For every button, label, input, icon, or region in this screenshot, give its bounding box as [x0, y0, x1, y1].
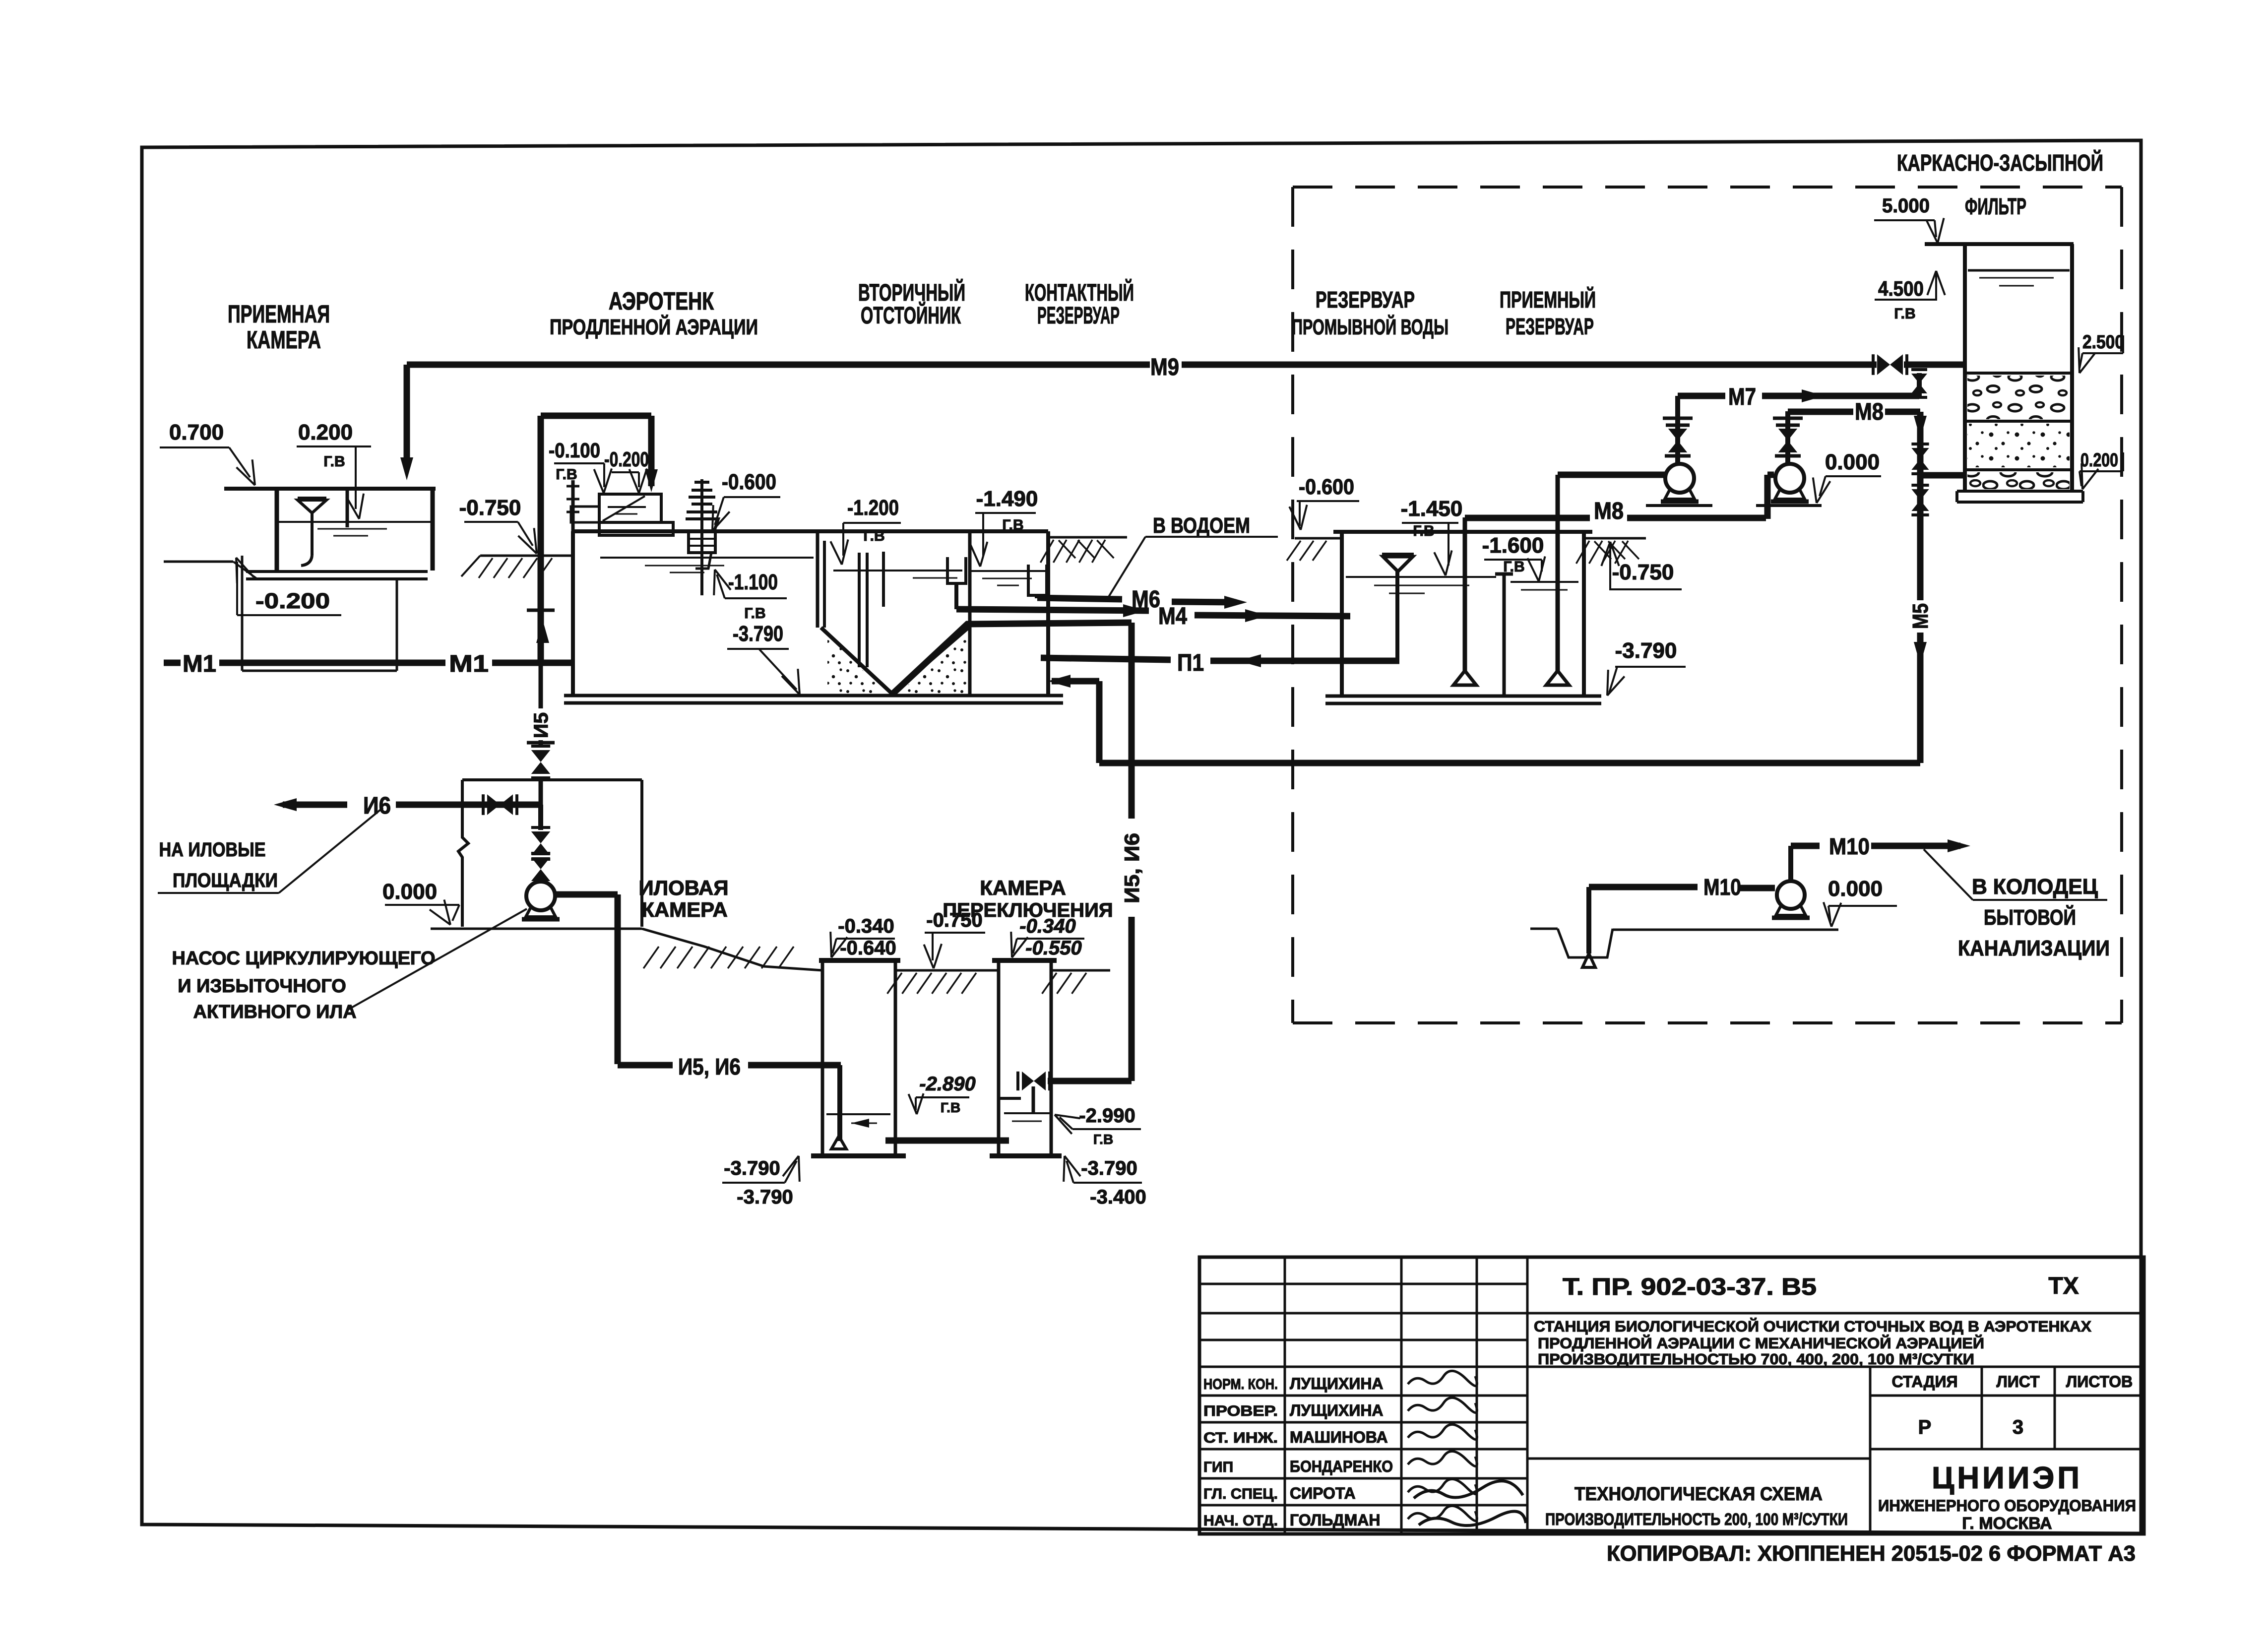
water line in settler [833, 570, 962, 572]
svg-text:ИЛОВАЯ: ИЛОВАЯ [638, 876, 728, 899]
svg-text:СТАНЦИЯ БИОЛОГИЧЕСКОЙ ОЧИСТК: СТАНЦИЯ БИОЛОГИЧЕСКОЙ ОЧИСТКИ СТОЧНЫХ ВО… [1534, 1317, 2091, 1335]
М9 drop into receiving chamber with arrow [404, 365, 410, 464]
svg-text:И ИЗБЫТОЧНОГО: И ИЗБЫТОЧНОГО [178, 976, 346, 997]
svg-text:НА ИЛОВЫЕ: НА ИЛОВЫЕ [159, 839, 266, 861]
ground + hatch right of receiving reservoir [1584, 537, 1646, 540]
svg-text:ГЛ. СПЕЦ.: ГЛ. СПЕЦ. [1203, 1486, 1278, 1502]
overflow funnel in washing reservoir [1383, 557, 1413, 572]
svg-text:ПРИЕМНАЯ: ПРИЕМНАЯ [228, 300, 330, 328]
svg-text:М10: М10 [1829, 833, 1870, 859]
svg-text:П1: П1 [1177, 650, 1204, 676]
svg-text:КАНАЛИЗАЦИИ: КАНАЛИЗАЦИИ [1958, 936, 2110, 960]
ground + hatch left of washing reservoir [1295, 537, 1342, 540]
pit walls under chamber [241, 556, 244, 671]
svg-text:ЛИСТ: ЛИСТ [1996, 1373, 2040, 1391]
svg-text:НОРМ. КОН.: НОРМ. КОН. [1203, 1376, 1278, 1393]
water line in sludge chamber [826, 1113, 890, 1115]
svg-text:Г.В: Г.В [323, 453, 345, 470]
svg-text:-3.790: -3.790 [1615, 638, 1677, 663]
svg-text:М6: М6 [1132, 586, 1160, 613]
ground lines & hatch at chambers [895, 969, 999, 972]
svg-text:-1.600: -1.600 [1482, 533, 1544, 558]
svg-text:КАМЕРА: КАМЕРА [247, 326, 321, 354]
sludge chamber walls [821, 962, 824, 1154]
svg-text:НАЧ. ОТД.: НАЧ. ОТД. [1203, 1513, 1278, 1529]
svg-text:РЕЗЕРВУАР: РЕЗЕРВУАР [1037, 303, 1120, 329]
svg-text:Г. МОСКВА: Г. МОСКВА [1962, 1514, 2052, 1533]
svg-text:2.500: 2.500 [2082, 332, 2124, 353]
svg-text:Г.В: Г.В [1894, 306, 1915, 322]
suction funnel 2 (receiving reservoir) [1546, 671, 1569, 685]
svg-text:ПЛОЩАДКИ: ПЛОЩАДКИ [173, 870, 278, 891]
title block vertical dividers (left table) [1284, 1257, 1286, 1534]
svg-text:0.200: 0.200 [2080, 450, 2118, 471]
svg-text:ФИЛЬТР: ФИЛЬТР [1965, 193, 2026, 219]
filter gravel layer 1 [1965, 372, 2072, 375]
svg-text:В КОЛОДЕЦ: В КОЛОДЕЦ [1972, 875, 2098, 899]
ground line at sludge pump [431, 928, 642, 930]
pipe М1 stub at left [164, 660, 181, 666]
svg-text:ПРИЕМНЫЙ: ПРИЕМНЫЙ [1500, 287, 1596, 313]
svg-text:М4: М4 [1158, 603, 1187, 630]
svg-text:И5, И6: И5, И6 [678, 1054, 741, 1080]
svg-text:М1: М1 [183, 651, 216, 677]
filter walls [1963, 244, 1967, 491]
svg-text:-0.340: -0.340 [838, 915, 894, 937]
svg-text:-0.750: -0.750 [459, 496, 521, 520]
svg-text:Г.В: Г.В [1093, 1132, 1113, 1147]
svg-text:ПРОДЛЕННОЙ АЭРАЦИИ: ПРОДЛЕННОЙ АЭРАЦИИ [550, 314, 758, 339]
svg-text:-0.750: -0.750 [926, 909, 982, 931]
svg-text:Г.В: Г.В [1002, 517, 1023, 533]
inlet funnel in receiving chamber [298, 500, 326, 513]
title block right-side lines [1527, 1312, 2144, 1315]
pipe И6 segment with valve [396, 802, 540, 808]
svg-text:-0.340: -0.340 [1019, 915, 1075, 937]
svg-text:ПРОИЗВОДИТЕЛЬНОСТЬ 200, 100: ПРОИЗВОДИТЕЛЬНОСТЬ 200, 100 М³/СУТКИ [1545, 1510, 1848, 1529]
svg-text:ЛУЩИХИНА: ЛУЩИХИНА [1290, 1375, 1384, 1393]
svg-text:РЕЗЕРВУАР: РЕЗЕРВУАР [1316, 287, 1415, 313]
svg-text:КАМЕРА: КАМЕРА [980, 876, 1066, 899]
svg-text:ГОЛЬДМАН: ГОЛЬДМАН [1290, 1511, 1381, 1529]
svg-text:М9: М9 [1150, 354, 1179, 381]
М8 drop to filter inlet [1917, 412, 1924, 475]
pump bed line [1646, 504, 1712, 507]
svg-text:М5: М5 [1908, 603, 1933, 629]
svg-text:Г.В: Г.В [1503, 559, 1524, 575]
water line in receiving chamber [279, 521, 431, 523]
junction into filter [1920, 472, 1965, 479]
svg-text:4.500: 4.500 [1878, 277, 1924, 300]
title block horizontal lines (left table) [1199, 1283, 1527, 1285]
svg-text:НАСОС ЦИРКУЛИРУЮЩЕГО: НАСОС ЦИРКУЛИРУЮЩЕГО [172, 948, 435, 969]
svg-text:АКТИВНОГО ИЛА: АКТИВНОГО ИЛА [193, 1002, 356, 1022]
М5 branch with valves [1917, 475, 1924, 600]
reservoirs bottom slab [1325, 695, 1601, 698]
main basin right wall [1046, 531, 1050, 696]
pipe М1 to aerotank riser [492, 660, 574, 666]
main basin bottom slab [564, 694, 1063, 698]
pipe П1 from washing reservoir funnel [1210, 658, 1399, 664]
svg-text:И6: И6 [363, 793, 391, 819]
svg-text:Г.В: Г.В [744, 605, 765, 622]
flanged stub on aerotank wall [571, 480, 575, 531]
pipe М4 to washing reservoir [1195, 615, 1350, 616]
svg-text:ЛУЩИХИНА: ЛУЩИХИНА [1290, 1401, 1384, 1419]
dashed boundary box of filter station [1293, 186, 2122, 189]
pipe М6 from contact trough [1035, 595, 1039, 598]
svg-text:ЛИСТОВ: ЛИСТОВ [2066, 1373, 2133, 1391]
valve on switching chamber inlet [1022, 1072, 1034, 1090]
connecting pipe between chambers [885, 1138, 1009, 1144]
filter coarse layer [1965, 468, 2072, 471]
contact reservoir outlet trough [1028, 565, 1047, 595]
valve on М9 near filter [1877, 354, 1890, 375]
filter sand layer [1965, 420, 2072, 423]
svg-text:ПРОДЛЕННОЙ АЭРАЦИИ С МЕХАНИ: ПРОДЛЕННОЙ АЭРАЦИИ С МЕХАНИЧЕСКОЙ АЭРАЦИ… [1538, 1334, 1984, 1352]
switching chamber caps [992, 958, 1057, 963]
aerotank inlet distribution box [599, 494, 661, 522]
М10 intake funnel [1582, 953, 1595, 967]
svg-text:Г.В: Г.В [941, 1100, 960, 1115]
wash funnel stem down to П1 [1395, 572, 1399, 661]
svg-text:-0.600: -0.600 [722, 470, 776, 494]
svg-text:ТХ: ТХ [2048, 1273, 2078, 1299]
pump 1 riser with valve stack [1675, 411, 1680, 464]
pipe М5 long run under reservoirs [1099, 760, 1920, 766]
svg-text:-0.550: -0.550 [1025, 937, 1081, 959]
svg-text:-2.890: -2.890 [919, 1073, 975, 1095]
svg-text:БЫТОВОЙ: БЫТОВОЙ [1984, 904, 2076, 930]
svg-text:СТАДИЯ: СТАДИЯ [1892, 1373, 1958, 1391]
svg-text:ТЕХНОЛОГИЧЕСКАЯ СХЕМА: ТЕХНОЛОГИЧЕСКАЯ СХЕМА [1574, 1484, 1823, 1505]
svg-text:-1.200: -1.200 [847, 496, 899, 520]
svg-text:-0.200: -0.200 [604, 447, 649, 471]
М10 suction sump [1530, 928, 1558, 930]
svg-text:АЭРОТЕНК: АЭРОТЕНК [609, 287, 714, 315]
svg-text:-0.200: -0.200 [255, 589, 330, 613]
water line washing reservoir [1346, 576, 1496, 578]
pipe М8 discharge [1785, 411, 1790, 412]
svg-text:М10: М10 [1703, 874, 1741, 900]
svg-text:-2.990: -2.990 [1079, 1105, 1135, 1127]
pipe П1 stub from contact reservoir [1041, 658, 1171, 660]
М1 feed loop up and over into aerotank inlet [538, 416, 544, 663]
svg-text:-0.640: -0.640 [840, 937, 896, 959]
ground slope to chambers + hatch [642, 929, 822, 970]
receiving chamber rim [224, 487, 436, 491]
svg-text:-3.790: -3.790 [737, 1186, 793, 1208]
svg-text:ПРОИЗВОДИТЕЛЬНОСТЬЮ 700, 400: ПРОИЗВОДИТЕЛЬНОСТЬЮ 700, 400, 200, 100 М… [1538, 1350, 1974, 1368]
svg-text:0.700: 0.700 [169, 420, 224, 445]
washing reservoir left wall [1340, 532, 1344, 696]
pipe М9 from filter to receiving chamber [407, 362, 1150, 368]
settler V-hopper [821, 628, 968, 694]
main basin rim (aerotank/settler/contact) [573, 529, 1048, 533]
pump suction loop rectangle [462, 778, 642, 781]
svg-text:МАШИНОВА: МАШИНОВА [1290, 1428, 1388, 1446]
ground + hatch right of contact reservoir [1048, 536, 1127, 539]
svg-text:-3.790: -3.790 [1081, 1157, 1137, 1179]
receiving chamber bottom slab [246, 570, 428, 573]
svg-text:КОПИРОВАЛ: ХЮППЕНЕН 20515-02: КОПИРОВАЛ: ХЮППЕНЕН 20515-02 6 ФОРМАТ А3 [1607, 1541, 2136, 1566]
svg-text:М8: М8 [1855, 399, 1884, 425]
П1/М5 riser into contact reservoir [1096, 681, 1103, 763]
svg-text:И5, И6: И5, И6 [1120, 833, 1143, 903]
switching chamber walls [997, 962, 1001, 1154]
pipe М4 from settler trough [956, 609, 1149, 611]
sludge pump (circulating/excess) [539, 881, 543, 883]
svg-text:ГИП: ГИП [1203, 1459, 1233, 1475]
receiving chamber walls [275, 489, 279, 571]
svg-text:Р: Р [1918, 1416, 1932, 1438]
svg-text:РЕЗЕРВУАР: РЕЗЕРВУАР [1506, 314, 1594, 339]
svg-text:-3.790: -3.790 [733, 622, 783, 646]
pump 2 riser with valve stack [1785, 411, 1790, 464]
svg-text:0.200: 0.200 [298, 420, 353, 445]
svg-text:ПРОМЫВНОЙ ВОДЫ: ПРОМЫВНОЙ ВОДЫ [1292, 314, 1448, 339]
svg-text:ПРОВЕР.: ПРОВЕР. [1203, 1403, 1278, 1419]
settler inlet baffle [882, 552, 885, 607]
svg-text:ИНЖЕНЕРНОГО ОБОРУДОВАНИЯ: ИНЖЕНЕРНОГО ОБОРУДОВАНИЯ [1878, 1497, 2136, 1515]
svg-text:Г.В: Г.В [1413, 523, 1434, 539]
М10 suction pipe [1586, 887, 1591, 953]
water line in switching chamber [1004, 1112, 1051, 1114]
suction pipe funnel2 to pump 1 [1556, 475, 1560, 671]
receiving reservoir right wall [1582, 532, 1586, 696]
partition wash/receiving reservoirs [1503, 575, 1506, 696]
svg-text:-1.100: -1.100 [728, 570, 778, 594]
svg-text:КАРКАСНО-ЗАСЫПНОЙ: КАРКАСНО-ЗАСЫПНОЙ [1897, 150, 2103, 176]
svg-text:0.000: 0.000 [1825, 450, 1880, 474]
svg-text:3: 3 [2013, 1416, 2023, 1438]
valve between М7 and М9 [1917, 373, 1922, 396]
svg-text:-0.100: -0.100 [549, 439, 600, 462]
title block: signatures [1408, 1371, 1477, 1386]
svg-text:В ВОДОЕМ: В ВОДОЕМ [1153, 513, 1250, 538]
ground line under М10 pump [1613, 929, 1838, 931]
filter water line [1968, 269, 2070, 272]
svg-text:5.000: 5.000 [1882, 195, 1930, 217]
М10 discharge [1788, 846, 1793, 881]
valves above sludge pump [538, 805, 543, 830]
settler central feed pipe [858, 553, 861, 667]
pump discharge И5-И6 down run [555, 891, 618, 898]
pump М10 [1777, 881, 1805, 909]
sludge pipe from hopper to И5-И6 riser [893, 623, 1132, 694]
svg-text:СТ. ИНЖ.: СТ. ИНЖ. [1203, 1430, 1278, 1446]
svg-text:-1.450: -1.450 [1401, 497, 1463, 521]
mechanical aerator symbol [700, 479, 703, 595]
svg-text:М1: М1 [449, 651, 489, 677]
svg-text:КАМЕРА: КАМЕРА [641, 898, 728, 921]
svg-text:ОТСТОЙНИК: ОТСТОЙНИК [861, 302, 961, 329]
svg-text:М7: М7 [1728, 384, 1756, 410]
svg-text:ЦНИИЭП: ЦНИИЭП [1932, 1461, 2082, 1495]
svg-text:0.000: 0.000 [1828, 877, 1883, 901]
svg-text:-3.790: -3.790 [724, 1157, 780, 1179]
svg-text:М8: М8 [1594, 498, 1624, 524]
pump 1 (filter feed) [1665, 464, 1694, 493]
pipe outlet triangle in sludge chamber [831, 1136, 846, 1149]
И5 riser with valve and end cap [527, 609, 555, 612]
pipe М7 [1678, 393, 1725, 399]
pipe М6 discharge arrow [1172, 602, 1236, 602]
water line in contact reservoir [971, 570, 1047, 572]
sludge chamber top/bottom caps [819, 958, 900, 963]
reservoirs rim line [1333, 530, 1592, 534]
svg-text:-0.750: -0.750 [1612, 560, 1674, 584]
suction pipe funnel1 up and over [1463, 517, 1467, 671]
pump 2 (backwash) [1775, 464, 1804, 493]
svg-text:-1.490: -1.490 [976, 487, 1038, 511]
svg-text:ВТОРИЧНЫЙ: ВТОРИЧНЫЙ [858, 279, 965, 306]
sand texture in hopper corners [827, 635, 887, 695]
svg-text:0.000: 0.000 [382, 880, 437, 904]
drawing border frame [142, 140, 2141, 1533]
ground line left of chamber [164, 561, 233, 563]
suction funnel 1 (washing reservoir) [1453, 671, 1476, 685]
water line in aerotank [600, 557, 814, 559]
ground line right of chamber + hatch [480, 555, 573, 557]
partition wall aerotank/settler [816, 531, 819, 628]
filter bottom slab [1957, 490, 2083, 493]
И5-И6 pipe into switching chamber [1048, 1078, 1132, 1084]
svg-text:-3.400: -3.400 [1090, 1186, 1146, 1208]
pipe М1 under chamber [219, 660, 445, 666]
pipe И6 to sludge beds with arrow [283, 802, 347, 808]
settler outlet weir trough [947, 557, 966, 583]
svg-text:И5: И5 [530, 712, 552, 738]
internal stub in switching chamber [1000, 1097, 1021, 1100]
water line receiving reservoir [1511, 581, 1578, 583]
partition wall settler/contact [968, 531, 972, 696]
main basin left wall [571, 531, 575, 696]
svg-text:Г.В: Г.В [863, 528, 884, 544]
svg-text:Г.В: Г.В [556, 466, 577, 483]
svg-text:Т. ПР. 902-03-37. В5: Т. ПР. 902-03-37. В5 [1563, 1274, 1817, 1300]
title block outer frame [1199, 1257, 2144, 1534]
svg-text:БОНДАРЕНКО: БОНДАРЕНКО [1290, 1458, 1393, 1475]
svg-text:-0.600: -0.600 [1299, 475, 1354, 499]
svg-text:КОНТАКТНЫЙ: КОНТАКТНЫЙ [1025, 279, 1134, 306]
filter tank top [1925, 242, 2074, 246]
svg-text:СИРОТА: СИРОТА [1290, 1484, 1356, 1502]
